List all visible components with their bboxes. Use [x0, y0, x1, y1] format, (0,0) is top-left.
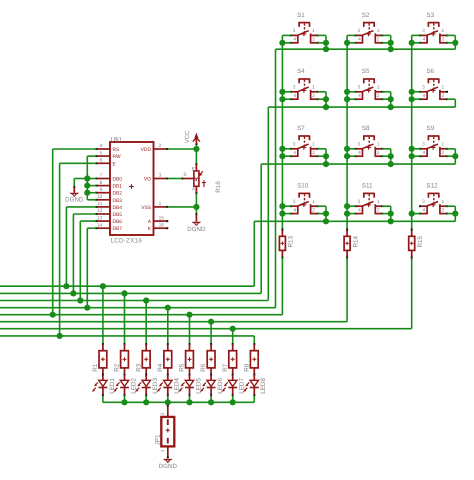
svg-text:8: 8	[100, 180, 103, 186]
svg-text:1: 1	[441, 28, 444, 34]
LED LED5	[179, 374, 203, 397]
svg-text:1: 1	[312, 85, 315, 91]
switch S12	[419, 183, 448, 215]
svg-text:R16: R16	[215, 181, 222, 193]
svg-text:S9: S9	[426, 125, 434, 132]
svg-text:RW: RW	[113, 154, 121, 160]
svg-text:VO: VO	[144, 177, 151, 183]
svg-text:15: 15	[159, 215, 165, 221]
switch S6	[419, 68, 448, 100]
svg-text:DB1: DB1	[113, 184, 123, 190]
wire net DB4	[66, 207, 96, 286]
svg-text:3: 3	[293, 142, 296, 148]
svg-text:4: 4	[293, 150, 296, 156]
svg-text:1: 1	[312, 28, 315, 34]
svg-text:R2: R2	[114, 363, 121, 372]
svg-text:LCD-ZX16: LCD-ZX16	[111, 238, 143, 245]
svg-text:DB0: DB0	[113, 177, 123, 183]
svg-text:R8: R8	[243, 363, 250, 372]
svg-text:S: S	[183, 172, 186, 178]
svg-text:K: K	[148, 226, 152, 232]
svg-text:1: 1	[377, 199, 380, 205]
ground DGND below JP1	[159, 459, 178, 470]
svg-text:1: 1	[377, 142, 380, 148]
wire VCC to R16	[195, 149, 197, 165]
wire signal net line 6	[0, 319, 347, 325]
wire net DB7	[87, 228, 96, 308]
svg-text:2: 2	[441, 150, 444, 156]
wire keypad column 3	[411, 35, 413, 229]
wire R14 to net	[346, 258, 348, 322]
svg-text:4: 4	[423, 93, 426, 99]
switch S2	[354, 12, 383, 44]
svg-text:DB7: DB7	[113, 226, 123, 232]
jumper JP1	[155, 402, 175, 458]
svg-text:4: 4	[293, 37, 296, 43]
svg-text:S2: S2	[362, 12, 370, 19]
resistor R6	[200, 343, 215, 374]
svg-text:R14: R14	[352, 235, 359, 247]
wire signal net line 2	[0, 290, 261, 296]
wire S11 terminals	[344, 203, 394, 224]
svg-text:2: 2	[441, 93, 444, 99]
wire net DB5	[73, 214, 96, 293]
wire LED6 to cathode rail	[210, 396, 212, 403]
svg-text:4: 4	[293, 93, 296, 99]
switch S10	[290, 183, 319, 215]
svg-text:2: 2	[159, 143, 162, 149]
svg-text:S3: S3	[426, 12, 434, 19]
wire S10 terminals	[279, 203, 329, 224]
svg-text:1: 1	[441, 85, 444, 91]
svg-text:R4: R4	[157, 363, 164, 372]
svg-text:1: 1	[441, 199, 444, 205]
svg-text:7: 7	[100, 173, 103, 179]
svg-text:S4: S4	[297, 68, 305, 75]
svg-text:A: A	[148, 219, 152, 225]
wire net VDD/VCC	[168, 143, 200, 152]
wire signal net line 7	[0, 326, 412, 332]
wire net drop to R1	[102, 286, 104, 344]
wire net drop to R2	[124, 293, 126, 344]
switch S1	[290, 12, 319, 44]
LED LED6	[200, 374, 224, 397]
wire signal net line 8	[0, 333, 254, 339]
LED LED3	[135, 374, 159, 397]
wire S3 terminals	[409, 35, 459, 49]
svg-text:2: 2	[312, 93, 315, 99]
svg-text:2: 2	[312, 208, 315, 214]
svg-text:2: 2	[377, 37, 380, 43]
wire S7 terminals	[279, 146, 329, 168]
wire keypad column 1	[281, 35, 283, 229]
svg-text:16: 16	[159, 222, 165, 228]
LED LED2	[114, 374, 138, 397]
svg-text:2: 2	[377, 208, 380, 214]
svg-text:1: 1	[160, 449, 166, 452]
wire keypad row 3	[261, 164, 455, 293]
ground DGND at LCD	[65, 193, 84, 204]
svg-text:4: 4	[423, 37, 426, 43]
resistor R15	[409, 229, 424, 259]
svg-text:1: 1	[441, 142, 444, 148]
svg-text:14: 14	[97, 222, 103, 228]
svg-text:R1: R1	[92, 363, 99, 372]
svg-text:3: 3	[422, 28, 425, 34]
svg-text:3: 3	[293, 28, 296, 34]
wire signal net line 5	[0, 312, 282, 318]
wire LED1 to cathode rail	[102, 396, 104, 403]
svg-text:3: 3	[357, 199, 360, 205]
wire net RS	[53, 149, 97, 315]
wire LED2 to cathode rail	[124, 396, 126, 403]
svg-text:S1: S1	[297, 12, 305, 19]
wire S6 terminals	[409, 89, 456, 107]
wire signal net line 1	[0, 283, 254, 289]
svg-text:2: 2	[312, 37, 315, 43]
wire net drop to R4	[167, 308, 169, 344]
svg-text:1: 1	[377, 85, 380, 91]
svg-text:13: 13	[97, 215, 103, 221]
svg-text:4: 4	[423, 208, 426, 214]
svg-text:10: 10	[97, 194, 103, 200]
svg-text:DGND: DGND	[187, 226, 206, 233]
switch S3	[419, 12, 448, 44]
svg-text:DB6: DB6	[113, 219, 123, 225]
svg-text:S10: S10	[297, 183, 309, 190]
svg-text:3: 3	[357, 85, 360, 91]
svg-text:9: 9	[100, 187, 103, 193]
LED LED4	[157, 374, 181, 397]
wire net drop to R3	[145, 301, 147, 345]
svg-text:VCC: VCC	[184, 130, 191, 143]
wire S4 terminals	[279, 89, 329, 110]
wire S12 terminals	[409, 206, 459, 221]
svg-text:JP1: JP1	[155, 434, 162, 445]
resistor R13	[279, 229, 294, 259]
wire R15 to net	[411, 258, 413, 329]
svg-text:VSS: VSS	[141, 205, 152, 211]
svg-text:2: 2	[441, 208, 444, 214]
svg-text:S5: S5	[362, 68, 370, 75]
svg-text:3: 3	[293, 199, 296, 205]
svg-text:S7: S7	[297, 125, 305, 132]
svg-text:LED8: LED8	[260, 378, 267, 394]
wire net VSS to ground	[168, 194, 200, 222]
svg-text:R15: R15	[417, 235, 424, 247]
wire net drop to R5	[189, 315, 191, 344]
wire net E	[60, 163, 97, 336]
wire net RW/DB0-DB3 to ground	[73, 156, 96, 200]
resistor R14	[344, 229, 359, 259]
svg-text:DB2: DB2	[113, 191, 123, 197]
svg-text:DGND: DGND	[159, 463, 178, 470]
svg-text:11: 11	[97, 201, 102, 207]
svg-text:2: 2	[377, 93, 380, 99]
svg-text:2: 2	[377, 150, 380, 156]
svg-text:2: 2	[312, 150, 315, 156]
wire keypad row 2	[268, 107, 455, 300]
wire LED5 to cathode rail	[189, 396, 191, 403]
svg-text:DB5: DB5	[113, 212, 123, 218]
svg-text:2: 2	[441, 37, 444, 43]
wire net drop to R8	[253, 336, 255, 344]
svg-text:4: 4	[358, 150, 361, 156]
svg-text:S12: S12	[426, 183, 438, 190]
trimmer R16	[181, 164, 222, 194]
svg-text:1: 1	[159, 201, 162, 207]
svg-text:R3: R3	[135, 363, 142, 372]
svg-text:3: 3	[422, 199, 425, 205]
svg-text:3: 3	[357, 28, 360, 34]
switch S4	[290, 68, 319, 100]
resistor R5	[179, 343, 194, 374]
wire net drop to R6	[210, 322, 212, 344]
wire signal net line 4	[0, 305, 276, 311]
svg-text:DGND: DGND	[65, 197, 84, 204]
svg-text:3: 3	[293, 85, 296, 91]
switch S8	[354, 125, 383, 157]
svg-text:4: 4	[358, 37, 361, 43]
svg-text:E: E	[113, 161, 117, 167]
resistor R3	[135, 343, 150, 374]
svg-text:4: 4	[100, 143, 103, 149]
svg-text:RS: RS	[113, 147, 121, 153]
wire keypad column 2	[346, 35, 348, 229]
resistor R2	[114, 343, 129, 374]
svg-text:12: 12	[97, 208, 103, 214]
svg-text:6: 6	[100, 158, 103, 164]
svg-text:E: E	[192, 166, 195, 172]
ground DGND below R16	[187, 222, 206, 233]
resistor R8	[243, 343, 258, 374]
svg-text:R13: R13	[288, 235, 295, 247]
svg-text:DB3: DB3	[113, 198, 123, 204]
wire LED8 to cathode rail	[253, 396, 255, 403]
power VCC	[184, 130, 200, 144]
wire S9 terminals	[409, 146, 459, 164]
wire R13 to net	[281, 258, 283, 315]
switch S11	[354, 183, 383, 215]
svg-text:2: 2	[160, 412, 166, 415]
svg-text:R6: R6	[200, 363, 207, 372]
wire LED4 to cathode rail	[167, 396, 169, 403]
svg-text:A: A	[192, 186, 196, 192]
switch S7	[290, 125, 319, 157]
svg-text:4: 4	[358, 208, 361, 214]
wire LED3 to cathode rail	[145, 396, 147, 403]
svg-text:S8: S8	[362, 125, 370, 132]
wire LED7 to cathode rail	[232, 396, 234, 403]
switch S9	[419, 125, 448, 157]
svg-text:5: 5	[100, 150, 103, 156]
svg-text:R7: R7	[222, 363, 229, 372]
svg-text:3: 3	[422, 142, 425, 148]
svg-text:1: 1	[312, 199, 315, 205]
svg-text:4: 4	[293, 208, 296, 214]
svg-text:3: 3	[357, 142, 360, 148]
wire S5 terminals	[344, 89, 394, 110]
wire keypad row 4	[254, 221, 455, 286]
wire net drop to R7	[232, 329, 234, 344]
svg-text:U$1: U$1	[111, 136, 123, 143]
wire net VO	[168, 178, 182, 180]
resistor R1	[92, 343, 107, 374]
wire keypad row 1	[276, 49, 456, 308]
svg-text:R5: R5	[179, 363, 186, 372]
svg-text:DB4: DB4	[113, 205, 123, 211]
switch S5	[354, 68, 383, 100]
svg-text:1: 1	[377, 28, 380, 34]
wire S8 terminals	[344, 146, 394, 168]
svg-text:S6: S6	[426, 68, 434, 75]
LED LED7	[222, 374, 246, 397]
svg-text:4: 4	[423, 150, 426, 156]
wire signal net line 3	[0, 297, 268, 303]
wire S1 terminals	[279, 35, 329, 52]
svg-text:3: 3	[159, 173, 162, 179]
resistor R4	[157, 343, 172, 374]
LCD module U1 (U$1 LCD-ZX16)	[95, 136, 168, 244]
LED LED8	[243, 374, 267, 397]
svg-text:1: 1	[312, 142, 315, 148]
svg-text:VDD: VDD	[141, 147, 152, 153]
svg-text:4: 4	[358, 93, 361, 99]
svg-text:S11: S11	[362, 183, 373, 190]
wire net DB6	[80, 221, 96, 300]
svg-text:3: 3	[422, 85, 425, 91]
resistor R7	[222, 343, 237, 374]
wire S2 terminals	[344, 35, 394, 52]
wire LED cathode rail	[103, 399, 254, 405]
LED LED1	[92, 374, 116, 397]
